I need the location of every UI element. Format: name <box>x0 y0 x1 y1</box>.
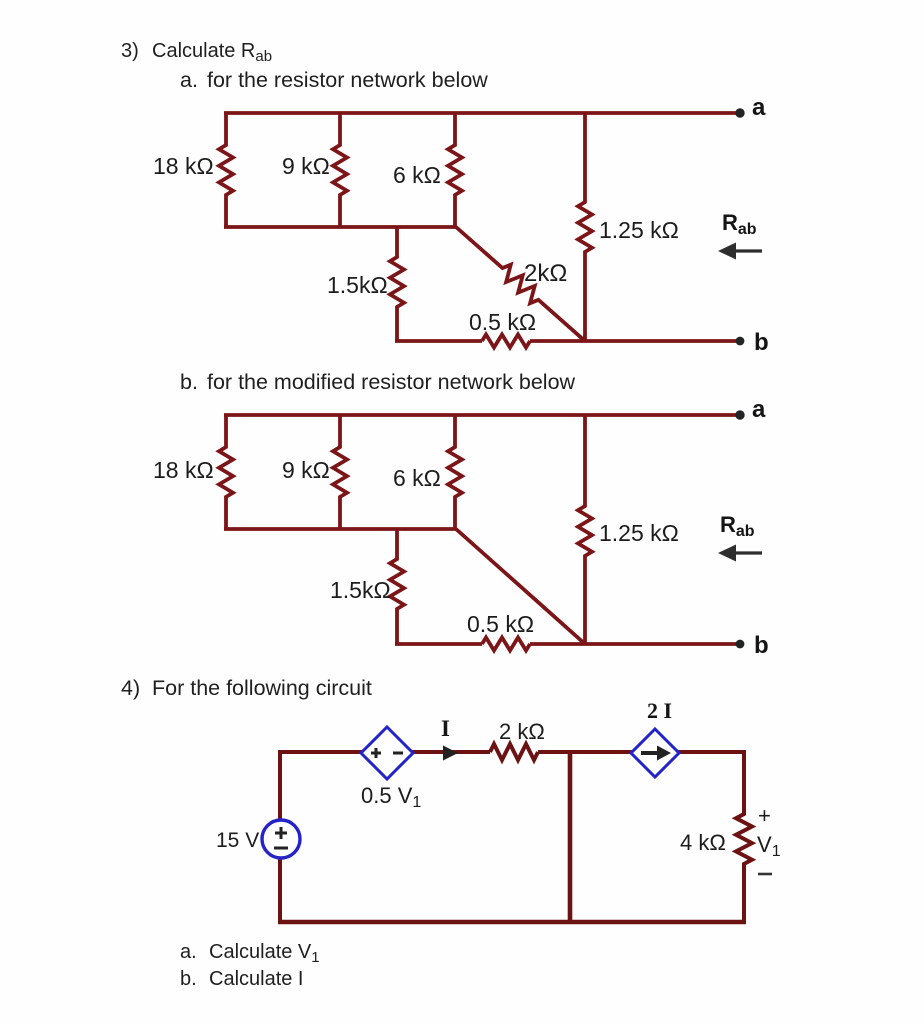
resistor 1.25 kΩ (circuit A) <box>578 113 592 341</box>
svg-text:Calculate Rab: Calculate Rab <box>152 40 272 65</box>
wire: circuit C middle branch <box>568 752 573 922</box>
svg-text:9 kΩ: 9 kΩ <box>282 153 330 179</box>
svg-text:a: a <box>752 94 766 121</box>
heading 4a <box>180 941 320 966</box>
label − polarity of V1 (circuit C) <box>758 873 772 876</box>
svg-text:2 kΩ: 2 kΩ <box>499 719 545 744</box>
wire: circuit C top net segment (source to 2k) <box>278 750 490 754</box>
resistor 2 kΩ diagonal (circuit A) <box>451 221 591 347</box>
node a terminal dot (circuit A) <box>735 108 744 117</box>
voltage source 15 V (circuit C) <box>262 820 300 858</box>
node b terminal dot (circuit B) <box>736 640 745 649</box>
resistor 1.25 kΩ (circuit B) <box>578 415 592 644</box>
dependent voltage source 0.5 V1 (circuit C) <box>361 727 413 779</box>
svg-text:0.5 V1: 0.5 V1 <box>361 783 421 811</box>
svg-text:For the following circuit: For the following circuit <box>152 676 372 700</box>
svg-text:6 kΩ: 6 kΩ <box>393 465 441 491</box>
wire: circuit A bottom net left segment <box>395 339 482 343</box>
svg-text:b.: b. <box>180 968 197 990</box>
svg-text:Calculate V1: Calculate V1 <box>209 941 320 966</box>
resistor 6 kΩ (circuit A) <box>448 113 462 227</box>
svg-text:1.5kΩ: 1.5kΩ <box>327 272 388 298</box>
svg-text:b.: b. <box>180 370 198 394</box>
svg-text:a: a <box>752 396 766 423</box>
svg-text:for the resistor network below: for the resistor network below <box>207 68 488 92</box>
node a terminal dot (circuit B) <box>735 410 744 419</box>
wire: circuit A top net (node a rail) <box>224 111 740 115</box>
svg-text:6 kΩ: 6 kΩ <box>393 162 441 188</box>
wire: circuit C left branch <box>278 752 282 922</box>
svg-text:18 kΩ: 18 kΩ <box>153 457 214 483</box>
svg-text:b: b <box>754 329 769 356</box>
wire: diagonal short-circuit wire (circuit B) <box>456 529 585 644</box>
resistor 1.5 kΩ (circuit A) <box>390 227 404 341</box>
svg-text:1.5kΩ: 1.5kΩ <box>330 577 391 603</box>
svg-text:for the modified resistor netw: for the modified resistor network below <box>207 370 576 394</box>
svg-text:I: I <box>441 716 450 741</box>
current I arrowhead on wire (circuit C) <box>443 746 458 761</box>
svg-text:2 I: 2 I <box>647 698 672 723</box>
resistor 0.5 kΩ (circuit B) <box>482 638 530 651</box>
svg-text:Calculate I: Calculate I <box>209 968 304 990</box>
svg-text:15 V: 15 V <box>216 829 259 852</box>
svg-text:9 kΩ: 9 kΩ <box>282 457 330 483</box>
wire: circuit A bottom net right segment <box>530 339 740 343</box>
wire: circuit A middle net <box>224 225 456 229</box>
svg-text:1.25 kΩ: 1.25 kΩ <box>599 217 679 243</box>
svg-text:0.5 kΩ: 0.5 kΩ <box>467 611 534 637</box>
wire: circuit C top net segment (2k to right corner) <box>538 750 746 754</box>
wire: circuit B bottom net right segment <box>530 642 740 646</box>
svg-text:3): 3) <box>121 40 139 62</box>
resistor 6 kΩ (circuit B) <box>448 415 462 529</box>
dependent current source 2I (circuit C) <box>631 729 679 777</box>
heading 3a <box>180 68 488 92</box>
node b terminal dot (circuit A) <box>736 337 745 346</box>
resistor 18 kΩ (circuit A) <box>219 113 233 227</box>
wire: circuit B top net (node a rail) <box>224 413 740 417</box>
heading 4b <box>180 968 304 990</box>
svg-text:a.: a. <box>180 68 198 92</box>
resistor 2 kΩ (circuit C) <box>490 744 538 760</box>
svg-text:+: + <box>758 803 771 828</box>
resistor 4 kΩ on right branch (circuit C) <box>736 752 752 922</box>
svg-text:0.5 kΩ: 0.5 kΩ <box>469 309 536 335</box>
resistor 1.5 kΩ (circuit B) <box>390 529 404 644</box>
resistor 18 kΩ (circuit B) <box>219 415 233 529</box>
arrow Rab pointing left (circuit B) <box>718 545 762 562</box>
svg-text:b: b <box>754 632 769 659</box>
svg-text:a.: a. <box>180 941 197 963</box>
resistor 9 kΩ (circuit A) <box>333 113 347 227</box>
heading 3b <box>180 370 576 394</box>
wire: circuit B middle net <box>224 527 456 531</box>
arrow Rab pointing left (circuit A) <box>718 243 762 260</box>
resistor 0.5 kΩ (circuit A) <box>482 335 530 348</box>
wire: circuit C bottom net <box>278 920 746 925</box>
svg-text:2kΩ: 2kΩ <box>524 260 567 287</box>
svg-text:4 kΩ: 4 kΩ <box>680 830 726 855</box>
svg-text:4): 4) <box>121 676 140 700</box>
svg-text:1.25 kΩ: 1.25 kΩ <box>599 520 679 546</box>
svg-text:18 kΩ: 18 kΩ <box>153 153 214 179</box>
heading problem 4 <box>121 676 372 700</box>
wire: circuit B bottom net left segment <box>395 642 482 646</box>
resistor 9 kΩ (circuit B) <box>333 415 347 529</box>
heading problem 3 <box>121 40 272 65</box>
